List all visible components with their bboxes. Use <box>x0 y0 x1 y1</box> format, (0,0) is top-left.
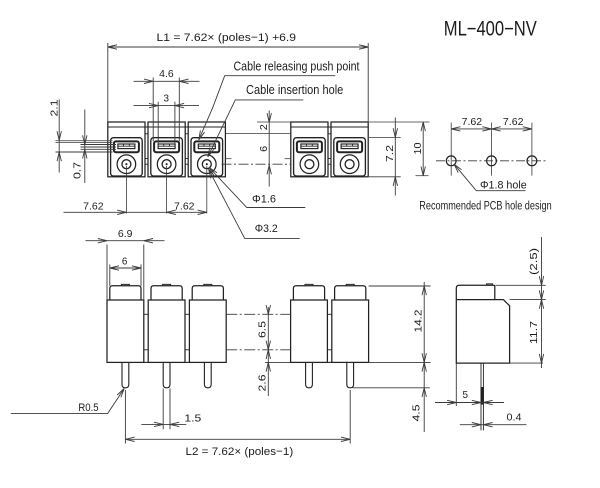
svg-text:Cable releasing push point: Cable releasing push point <box>234 59 360 74</box>
front view pole P4 cable releasing push point <box>297 141 322 152</box>
side view tabs between P2 P3 <box>185 313 189 315</box>
leader diameter 1.6 <box>209 168 305 208</box>
front view pole P1 cable insertion hole <box>117 155 136 174</box>
svg-text:Recommended PCB hole design: Recommended PCB hole design <box>419 198 551 212</box>
front view interlock tabs between P4 P5 <box>328 133 331 135</box>
svg-text:6.9: 6.9 <box>118 229 133 240</box>
front view pole P5 cover face <box>334 138 366 176</box>
dimension 2.1 extension lines <box>56 139 113 141</box>
front view interlock tabs between P1 P2 <box>145 133 148 135</box>
dimension L1 extension lines <box>107 43 109 122</box>
svg-text:5: 5 <box>463 390 469 401</box>
side view pole P3 top tab <box>204 284 212 285</box>
dimension 14.2 and 4.5 line <box>423 282 425 432</box>
front view break centerline through holes <box>222 163 292 165</box>
svg-text:7.62: 7.62 <box>83 201 104 212</box>
front view pole P1 centerline <box>125 166 127 214</box>
side view pole P4 solder pin <box>306 362 313 387</box>
front view break continuation stubs <box>225 158 231 160</box>
pcb hole 2 circle <box>487 156 497 166</box>
svg-text:14.2: 14.2 <box>414 309 425 332</box>
front view pole P5 cable releasing push point <box>337 141 362 152</box>
side view pin tip extension <box>353 387 430 389</box>
side view body bottom gap fills <box>144 361 148 363</box>
dimension 6.9 extension lines <box>106 245 108 301</box>
front view pole P4 body <box>291 122 328 177</box>
end view body bottom extension <box>510 362 543 364</box>
front view pole P2 cable insertion hole <box>157 155 176 174</box>
svg-text:L1 = 7.62× (poles−1) +6.9: L1 = 7.62× (poles−1) +6.9 <box>157 32 297 44</box>
end view front face extension <box>455 363 457 406</box>
svg-text:6.5: 6.5 <box>258 321 269 338</box>
dimension 7.2 extension lines <box>369 136 401 138</box>
pcb hole 2 vertical centerline <box>491 123 493 176</box>
end view solder pin <box>480 363 482 430</box>
svg-text:(2.5): (2.5) <box>529 248 540 275</box>
dimension 5 line with arrows <box>435 402 504 404</box>
svg-text:7.2: 7.2 <box>385 145 396 162</box>
dimension 6 line with arrows <box>110 267 141 269</box>
leader cable releasing push point <box>199 76 335 140</box>
side view tabs between P4 P5 <box>327 313 331 315</box>
svg-text:4.5: 4.5 <box>412 404 423 421</box>
side view pole P3 body <box>189 300 226 362</box>
svg-text:0.7: 0.7 <box>73 162 84 179</box>
side view pole P1 body <box>107 300 144 362</box>
dimension 7.62 pitch line first <box>64 211 207 213</box>
dimension 0.7 line with arrows <box>84 110 86 184</box>
front view pole P5 body <box>331 122 368 177</box>
front view pole P5 cable insertion hole <box>340 155 359 174</box>
svg-text:10: 10 <box>413 142 424 154</box>
side view pole P1 solder pin <box>122 362 129 387</box>
front view pole P1 cover face <box>111 138 143 176</box>
front view pole P4 cable insertion hole <box>300 155 319 174</box>
side view tabs between P1 P2 <box>144 313 148 315</box>
side view cap top extension right <box>369 285 431 287</box>
front view pole P1 body <box>108 122 145 177</box>
front view top band line group 1 <box>108 126 226 128</box>
end view cap <box>456 285 495 299</box>
dimension 4.6 extension lines <box>152 78 154 142</box>
leader cable insertion hole <box>208 100 303 157</box>
pcb hole pattern centerline <box>436 160 547 162</box>
svg-text:2: 2 <box>259 124 270 130</box>
dimension 1.5 extension lines <box>162 389 164 430</box>
leader R0.5 pin tip radius <box>11 389 124 414</box>
svg-text:7.62: 7.62 <box>462 117 483 128</box>
front view pole P3 cable releasing push point <box>194 141 219 152</box>
dimension 11.7 extension line <box>510 299 546 301</box>
svg-text:11.7: 11.7 <box>529 321 540 344</box>
svg-text:ML−400−NV: ML−400−NV <box>444 18 537 41</box>
svg-text:0.4: 0.4 <box>507 413 522 424</box>
pcb hole 3 circle <box>527 156 537 166</box>
dimension L2 line with arrows <box>125 438 350 440</box>
svg-text:L2 = 7.62× (poles−1): L2 = 7.62× (poles−1) <box>186 446 294 458</box>
side view body bottom extension right <box>369 361 431 363</box>
side view pole P4 cap <box>293 286 324 300</box>
side view pole P2 cap <box>151 286 182 300</box>
dimension 6.5 and 2.6 chain line <box>267 307 269 396</box>
front view pole P3 centerline <box>206 166 208 214</box>
side view pole P2 top tab <box>163 284 171 285</box>
dimension 0.7 extension lines <box>81 144 117 146</box>
svg-text:Φ1.6: Φ1.6 <box>252 193 276 205</box>
end view body <box>456 300 509 364</box>
dimension 1.5 line with arrows <box>141 423 186 425</box>
front view top band line group 2 <box>291 126 368 128</box>
dimension 3 line with arrows <box>134 105 200 107</box>
front view pole P1 cable releasing push point <box>114 141 139 152</box>
side view pole P4 top tab <box>305 284 313 285</box>
front view interlock tabs between P2 P3 <box>185 133 188 135</box>
side view pole P1 top tab <box>121 284 129 285</box>
dimension 3 extension lines <box>157 102 159 144</box>
front view pole P2 body <box>148 122 185 177</box>
dimension 4.6 line with arrows <box>134 80 200 82</box>
front view pole P3 cover face <box>191 138 223 176</box>
side view break continuation lines <box>226 313 290 315</box>
dimension 2.5 and 11.7 line <box>541 237 543 368</box>
side view pole P5 solder pin <box>347 362 354 387</box>
front view pole P3 body <box>188 122 225 177</box>
svg-text:4.6: 4.6 <box>159 69 174 80</box>
side view pole P2 body <box>148 300 185 362</box>
side view pole P5 cap <box>335 286 366 300</box>
side view body bottom extension left <box>265 361 291 363</box>
dimension 6 extension lines <box>109 265 111 286</box>
svg-text:7.62: 7.62 <box>174 201 195 212</box>
pcb dimension 7.62 7.62 line with arrows <box>451 128 532 130</box>
dimension 2.5 extension line <box>496 284 546 286</box>
svg-text:R0.5: R0.5 <box>78 402 98 414</box>
svg-text:2.6: 2.6 <box>258 374 269 391</box>
dimension L1 line with arrows <box>108 46 368 48</box>
dimension 0.4 line with arrows <box>460 424 527 426</box>
dimension 2.1 line with arrows <box>58 100 60 173</box>
pcb hole 1 circle <box>446 156 456 166</box>
leader diameter 3.2 <box>209 169 300 238</box>
dimension L2 extension lines <box>124 390 126 444</box>
side view pole P5 body <box>332 300 369 362</box>
side view pole P3 solder pin <box>204 362 211 387</box>
dimension 6.9 line with arrows <box>86 240 165 242</box>
front view pole P4 cover face <box>294 138 326 176</box>
end view top tab <box>487 284 493 285</box>
side view pole P3 cap <box>192 286 223 300</box>
side view pole P4 body <box>291 300 328 362</box>
leader diameter 1.8 hole <box>454 164 526 191</box>
svg-text:7.62: 7.62 <box>503 117 524 128</box>
front view pole P3 cable insertion hole <box>198 155 217 174</box>
dimension 10 line with arrows <box>422 122 424 176</box>
side view pole P1 cap <box>110 286 141 300</box>
dimension 7.2 line with arrows <box>394 118 396 196</box>
front view pole P2 centerline <box>166 166 168 214</box>
side view pole P2 solder pin <box>163 362 170 387</box>
svg-text:2.1: 2.1 <box>49 99 60 116</box>
svg-text:Φ1.8 hole: Φ1.8 hole <box>480 179 527 191</box>
front view pole P2 cover face <box>151 138 183 176</box>
svg-text:Φ3.2: Φ3.2 <box>255 223 278 235</box>
dimension 2 top extension <box>257 121 291 123</box>
pcb hole 3 vertical centerline <box>531 123 533 176</box>
svg-text:6: 6 <box>122 257 128 268</box>
front view break continuation line upper <box>225 133 290 135</box>
side view pole P5 top tab <box>346 284 354 285</box>
svg-text:3: 3 <box>164 93 170 104</box>
front view pole P2 cable releasing push point <box>154 141 179 152</box>
dimension 10 extension lines <box>369 121 430 123</box>
svg-text:6: 6 <box>259 146 270 152</box>
pcb hole 1 vertical centerline <box>450 123 452 176</box>
svg-text:1.5: 1.5 <box>184 414 201 425</box>
svg-text:Cable insertion hole: Cable insertion hole <box>246 82 343 97</box>
dimension 2 and 6 chain line <box>268 111 270 187</box>
